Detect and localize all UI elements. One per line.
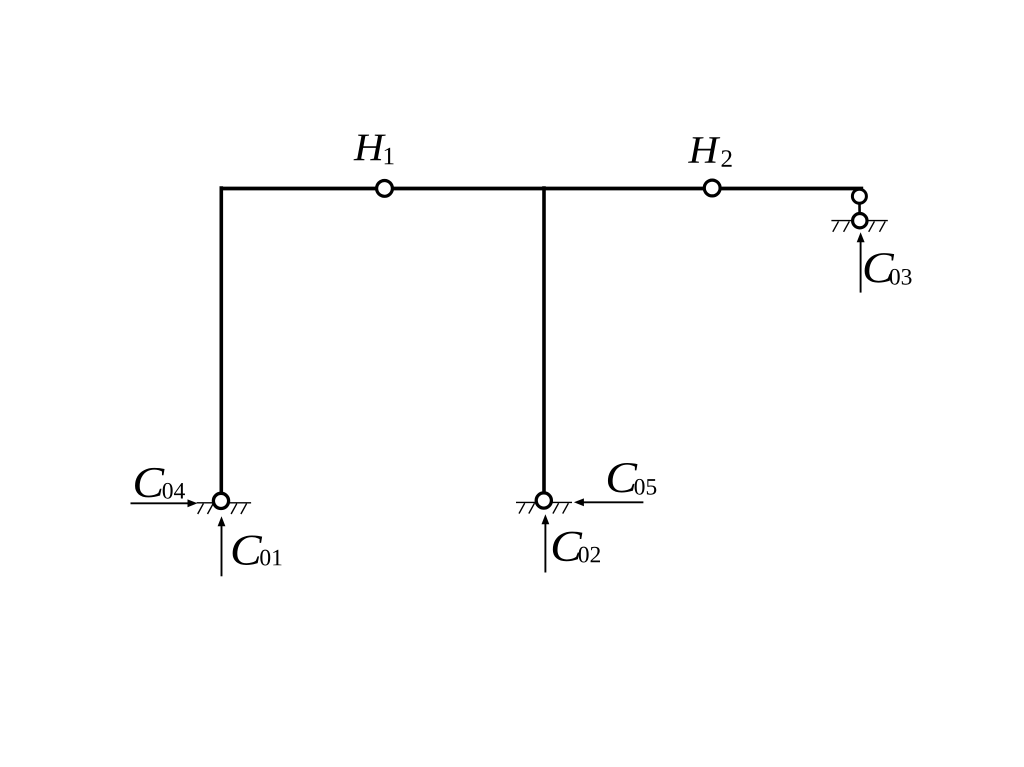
label H2 <box>688 137 732 167</box>
force arrow C02 (vertical, pointing up) <box>542 514 550 572</box>
label C01 <box>233 535 282 565</box>
node middle support pin circle <box>536 493 551 508</box>
wire right end link <box>858 196 861 221</box>
ground line right support <box>831 220 887 222</box>
force arrow C04 (horizontal, pointing right) <box>131 499 198 507</box>
label C03 <box>865 253 912 285</box>
node left support pin circle <box>213 493 228 508</box>
node right top hinge circle <box>852 189 866 203</box>
wire middle column <box>542 186 546 493</box>
node right support pin circle <box>853 214 867 228</box>
hinge H2 circle <box>704 180 720 196</box>
wire left column <box>220 186 224 494</box>
label C05 <box>608 463 656 495</box>
hinge H1 circle <box>377 181 393 197</box>
ground hatches right support <box>833 221 885 231</box>
force arrow C01 (vertical, pointing up) <box>218 516 226 576</box>
wire beam top horizontal <box>220 187 864 191</box>
label C02 <box>553 532 600 563</box>
force arrow C03 (vertical, pointing up) <box>857 232 865 292</box>
ground hatches left support <box>198 504 247 514</box>
force arrow C05 (horizontal, pointing left) <box>574 498 644 506</box>
label C04 <box>135 468 185 499</box>
ground hatches middle support <box>519 503 568 513</box>
label H1 <box>354 135 394 165</box>
ground line left support <box>197 502 252 504</box>
ground line middle support <box>516 501 572 503</box>
